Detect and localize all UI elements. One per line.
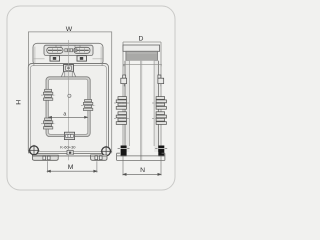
top housing xyxy=(33,43,103,65)
center double line xyxy=(140,61,142,161)
cap bottom shadow xyxy=(45,54,93,56)
terminal squares below cap xyxy=(50,56,87,61)
clip left upper xyxy=(43,89,52,100)
left terminal pill xyxy=(47,47,63,53)
svg-text:D: D xyxy=(139,36,144,43)
base flange xyxy=(117,153,165,160)
main body ring xyxy=(28,64,108,154)
side body xyxy=(125,61,159,152)
main clips left (two stacked clusters) xyxy=(116,97,126,125)
right terminal pill xyxy=(74,47,90,53)
screw circles xyxy=(30,146,111,156)
svg-text:M: M xyxy=(68,164,74,171)
dimension a xyxy=(49,116,88,118)
foot pad right xyxy=(91,155,107,160)
housing corner ticks on ring top xyxy=(34,64,102,66)
dimension N xyxy=(123,173,161,175)
clip left lower xyxy=(43,118,52,129)
svg-text:W: W xyxy=(66,26,73,33)
base connecting strip xyxy=(57,155,92,156)
dimension frame D/N xyxy=(123,42,161,176)
side cap xyxy=(123,45,160,51)
bottom latch xyxy=(64,132,74,139)
window frame xyxy=(46,77,90,137)
small hole xyxy=(68,94,71,97)
dimension M xyxy=(47,161,97,172)
bottom center square xyxy=(67,150,73,155)
main clips right xyxy=(156,97,166,125)
clip centerline ticks xyxy=(114,103,168,118)
feet center ticks xyxy=(118,147,168,149)
svg-text:K-60+30: K-60+30 xyxy=(60,145,76,150)
upper small clips xyxy=(121,75,164,84)
cap teeth xyxy=(56,45,80,47)
svg-text:H: H xyxy=(15,100,22,105)
svg-text:N: N xyxy=(140,167,145,174)
card border frame xyxy=(7,6,175,190)
center marks on cap (tiny label) xyxy=(64,48,73,52)
clip right xyxy=(83,100,92,111)
terminal cap xyxy=(44,45,93,55)
centerline xyxy=(68,40,70,160)
dimension frame W/H xyxy=(28,32,111,153)
lip line under cap xyxy=(123,64,162,66)
foot pad left xyxy=(32,155,58,160)
svg-text:a: a xyxy=(63,112,66,118)
top latch xyxy=(64,65,74,72)
black feet xyxy=(121,146,127,157)
